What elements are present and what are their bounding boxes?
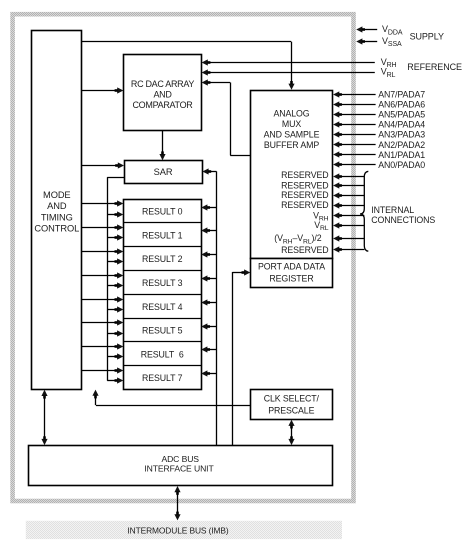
svg-text:RC DAC ARRAY: RC DAC ARRAY [131,79,195,89]
svg-text:VDDA: VDDA [382,24,403,36]
svg-text:AND SAMPLE: AND SAMPLE [264,129,320,139]
svg-text:SAR: SAR [154,167,173,177]
svg-text:REGISTER: REGISTER [269,273,313,283]
svg-text:AN0/PADA0: AN0/PADA0 [378,160,425,170]
svg-text:RESERVED: RESERVED [281,245,328,255]
svg-text:RESULT 2: RESULT 2 [142,254,183,264]
svg-text:PORT ADA DATA: PORT ADA DATA [258,262,325,272]
svg-text:RESERVED: RESERVED [281,180,328,190]
svg-text:REFERENCE: REFERENCE [407,62,462,72]
svg-text:COMPARATOR: COMPARATOR [132,100,193,110]
svg-text:AN6/PADA6: AN6/PADA6 [378,100,425,110]
svg-text:RESULT 4: RESULT 4 [142,302,183,312]
svg-text:CONNECTIONS: CONNECTIONS [371,215,435,225]
svg-text:PRESCALE: PRESCALE [268,405,314,415]
svg-text:VSSA: VSSA [382,36,402,48]
svg-text:RESULT 1: RESULT 1 [142,230,183,240]
svg-text:MODE: MODE [43,190,71,200]
svg-text:RESULT 7: RESULT 7 [142,373,183,383]
svg-text:AN7/PADA7: AN7/PADA7 [378,90,425,100]
svg-text:RESULT 5: RESULT 5 [142,326,183,336]
svg-text:INTERNAL: INTERNAL [371,205,414,215]
svg-text:AN2/PADA2: AN2/PADA2 [378,140,425,150]
svg-text:AND: AND [47,201,67,211]
svg-text:SUPPLY: SUPPLY [410,31,444,41]
svg-text:CONTROL: CONTROL [34,224,79,234]
svg-text:AN5/PADA5: AN5/PADA5 [378,110,425,120]
svg-text:RESULT 3: RESULT 3 [142,278,183,288]
svg-text:ANALOG: ANALOG [273,109,309,119]
svg-text:AND: AND [153,89,172,99]
svg-text:RESULT 0: RESULT 0 [142,207,183,217]
svg-text:INTERMODULE BUS (IMB): INTERMODULE BUS (IMB) [127,525,229,535]
svg-text:RESERVED: RESERVED [281,200,328,210]
svg-text:AN3/PADA3: AN3/PADA3 [378,130,425,140]
svg-text:AN4/PADA4: AN4/PADA4 [378,120,425,130]
svg-text:AN1/PADA1: AN1/PADA1 [378,150,425,160]
svg-text:TIMING: TIMING [41,212,73,222]
svg-text:INTERFACE UNIT: INTERFACE UNIT [144,463,214,473]
svg-text:CLK SELECT/: CLK SELECT/ [264,394,320,404]
svg-text:MUX: MUX [282,119,301,129]
svg-text:RESERVED: RESERVED [281,170,328,180]
svg-text:BUFFER AMP: BUFFER AMP [264,140,319,150]
svg-text:RESULT 6: RESULT 6 [141,349,184,359]
svg-text:RESERVED: RESERVED [281,190,328,200]
